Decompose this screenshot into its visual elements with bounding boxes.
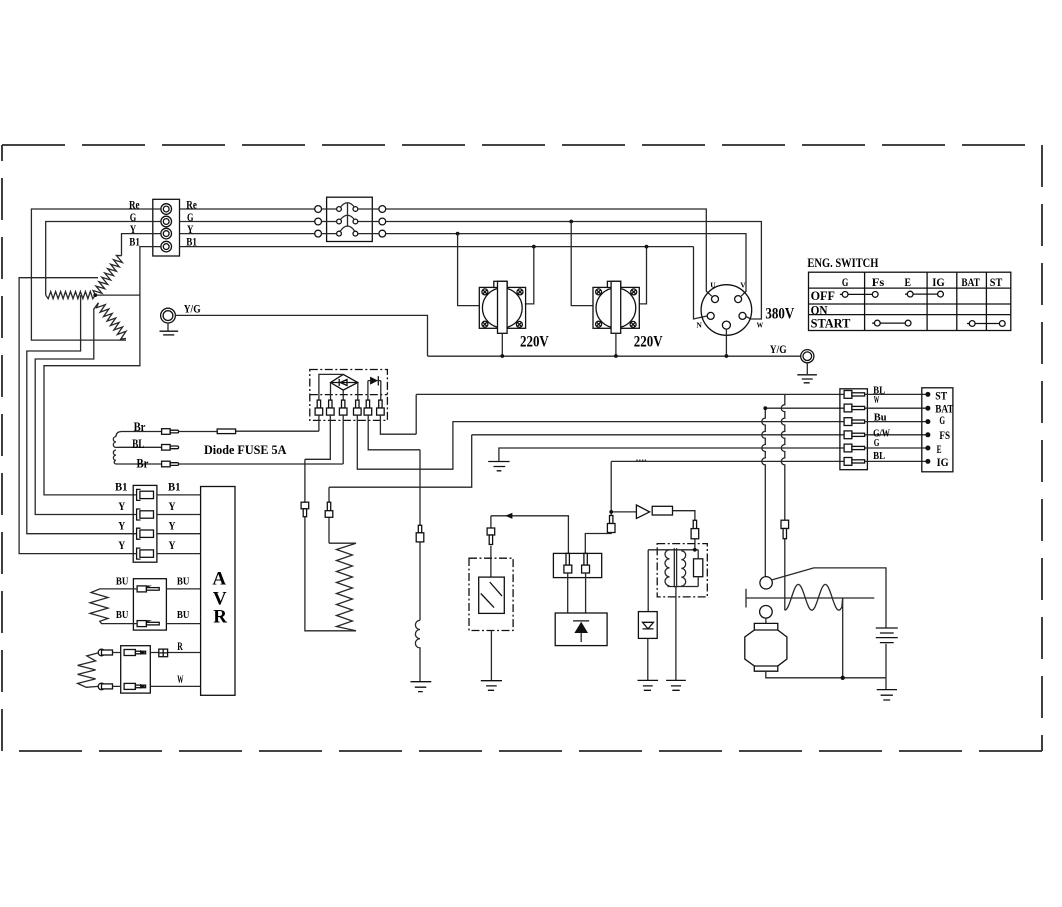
- svg-text:ST: ST: [990, 275, 1003, 289]
- svg-text:W: W: [177, 674, 183, 686]
- svg-text:Y/G: Y/G: [184, 304, 201, 316]
- svg-text:Y: Y: [169, 501, 177, 513]
- svg-text:Y: Y: [118, 501, 126, 513]
- svg-text:ST: ST: [935, 390, 947, 402]
- svg-text:B1: B1: [168, 482, 181, 494]
- svg-text:Br: Br: [134, 420, 146, 434]
- svg-text:Y: Y: [130, 224, 137, 236]
- svg-text:R: R: [213, 606, 227, 627]
- svg-text:E: E: [937, 444, 942, 456]
- svg-text:B1: B1: [115, 482, 128, 494]
- svg-text:BU: BU: [116, 576, 129, 588]
- svg-text:ON: ON: [811, 303, 828, 317]
- svg-text:U: U: [710, 281, 716, 290]
- svg-text:BAT: BAT: [935, 404, 954, 416]
- svg-text:W: W: [874, 395, 880, 406]
- svg-text:220V: 220V: [520, 333, 549, 350]
- svg-text:Fs: Fs: [872, 275, 885, 289]
- svg-text:START: START: [811, 317, 851, 331]
- svg-text:BL: BL: [132, 437, 144, 451]
- svg-text:BU: BU: [116, 609, 129, 621]
- svg-text:BU: BU: [177, 576, 190, 588]
- svg-text:IG: IG: [932, 275, 945, 289]
- svg-text:IG: IG: [937, 457, 949, 469]
- svg-text:BL: BL: [873, 450, 885, 462]
- svg-text:BAT: BAT: [961, 275, 980, 289]
- svg-text:W: W: [757, 321, 764, 330]
- svg-text:E: E: [905, 275, 912, 289]
- svg-text:G: G: [842, 275, 849, 289]
- svg-text:A: A: [212, 569, 226, 590]
- svg-text:220V: 220V: [634, 333, 663, 350]
- svg-text:Y: Y: [118, 540, 126, 552]
- svg-text:BU: BU: [177, 609, 190, 621]
- svg-text:Y: Y: [169, 520, 177, 532]
- svg-text:N: N: [696, 321, 702, 330]
- svg-text:G: G: [874, 438, 880, 449]
- svg-text:OFF: OFF: [811, 289, 836, 303]
- svg-text:Y: Y: [118, 520, 126, 532]
- svg-text:ENG. SWITCH: ENG. SWITCH: [807, 256, 878, 270]
- svg-text:Re: Re: [186, 200, 197, 212]
- svg-text:Bu: Bu: [874, 411, 887, 423]
- svg-text:B1: B1: [129, 236, 140, 248]
- svg-text:380V: 380V: [765, 305, 794, 322]
- svg-text:Y: Y: [169, 540, 177, 552]
- svg-text:G: G: [939, 415, 945, 427]
- svg-text:Diode FUSE 5A: Diode FUSE 5A: [204, 442, 287, 457]
- svg-text:Br: Br: [137, 457, 149, 471]
- svg-text:Re: Re: [129, 200, 140, 212]
- svg-text:R: R: [177, 641, 183, 653]
- svg-text:Y/G: Y/G: [770, 344, 787, 356]
- svg-text:V: V: [740, 281, 746, 290]
- svg-text:G: G: [130, 212, 137, 224]
- svg-text:FS: FS: [939, 430, 950, 442]
